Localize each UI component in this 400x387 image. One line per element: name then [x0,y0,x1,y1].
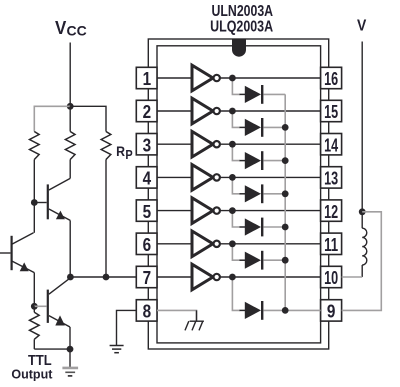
wire emitter node to ground [69,349,71,367]
svg-text:11: 11 [324,234,338,255]
node output 3 junction [229,141,236,148]
ground (TTL emitter) [62,368,78,376]
IC U1 outer outline [148,39,328,349]
node output 2 junction [229,108,236,115]
wire pin 8 to ground [117,310,137,345]
svg-text:P: P [125,147,133,162]
node output (Q1/Q3) [67,274,74,281]
node COM rail junction at D7 [282,307,289,314]
wire VCC supply [69,43,71,107]
pin 6 [136,233,157,255]
pin 1 [136,67,157,89]
wire pin 4 input to inverter A4 [157,176,192,178]
wire inverter A2 output to pin 15 [220,110,321,112]
wire inverter A1 output to pin 16 [220,77,321,79]
pin 9 [321,300,342,322]
label TTL Output [11,353,53,382]
node output 1 junction [229,75,236,82]
node Q3 base [31,303,38,310]
svg-text:1: 1 [143,68,152,89]
wire Q2 emitter to Q3 base node [33,273,35,307]
svg-text:15: 15 [324,101,338,122]
pin 12 [321,200,342,222]
node COM rail junction at D6 [282,257,289,264]
diode D3 [245,151,262,170]
wire flyback return to pin 9 [342,212,382,311]
inverter A1 [192,65,220,91]
diode D4 [245,184,262,203]
node output (Rp) [103,274,110,281]
node COM rail junction at D2 [282,124,289,131]
wire pin 1 input to inverter A1 [157,77,192,79]
node VCC junction [67,103,74,110]
wire output node 2 to diode D2 [232,111,240,127]
wire output node to pin 7 [70,276,136,278]
IC U1 pin-1 index notch [232,39,246,57]
wire V supply [361,42,363,212]
wire pin 5 input to inverter A5 [157,210,192,212]
node TTL emitter [67,346,74,353]
node A (Q1 base / Q2 collector) [31,199,38,206]
svg-text:V: V [55,18,66,38]
wire diode D1 cathode to COM rail [263,93,285,95]
node output 4 junction [229,174,236,181]
node output 6 junction [229,240,236,247]
svg-text:12: 12 [324,201,338,222]
inverter A7 [192,264,220,290]
node COM rail junction at D4 [282,190,289,197]
wire inverter A3 output to pin 14 [220,143,321,145]
svg-text:3: 3 [143,134,152,155]
diode D7 [245,301,262,320]
pin 8 [136,300,157,322]
transistor Q2 [0,233,34,273]
svg-text:CC: CC [67,22,87,38]
diode D2 [245,118,262,137]
pin 5 [136,200,157,222]
resistor R2 (middle bias) [65,132,75,160]
inductor L1 (relay coil) [362,212,367,277]
pin 11 [321,233,342,255]
wire output node 5 to diode D5 [232,211,240,227]
resistor R1 (left bias) [30,132,40,160]
wire inverter A4 output to pin 13 [220,176,321,178]
transistor Q3 [34,278,70,327]
node output 7 junction [229,274,236,281]
svg-text:6: 6 [143,234,152,255]
svg-text:9: 9 [327,301,336,322]
wire output node 6 to diode D6 [232,244,240,260]
wire pin 6 input to inverter A6 [157,243,192,245]
wire COM rail (diode common bus) [284,94,286,310]
pin 16 [321,67,342,89]
wire diode D5 cathode to COM rail [263,226,285,228]
node output 5 junction [229,207,236,214]
wire R2 to Q1 collector [69,160,71,179]
pin 14 [321,134,342,156]
svg-text:10: 10 [324,267,338,288]
resistor R3 (Q3 base-emitter) [30,306,40,349]
wire inverter A6 output to pin 11 [220,243,321,245]
transistor Q1 [34,178,70,220]
node COM rail junction at D3 [282,157,289,164]
inverter A6 [192,231,220,257]
inverter A4 [192,165,220,191]
svg-text:4: 4 [143,168,152,189]
substrate common symbol [185,310,204,330]
inverter A3 [192,131,220,157]
wire output node 7 to diode D7 [232,277,240,310]
pin 15 [321,100,342,122]
diode D5 [245,218,262,237]
svg-text:2: 2 [143,101,152,122]
label VCC [55,18,87,39]
wire diode D3 cathode to COM rail [263,160,285,162]
wire diode D7 cathode to COM rail [263,309,285,311]
wire output node 3 to diode D3 [232,144,240,160]
wire VCC to middle bias resistor [69,106,71,131]
wire pin 2 input to inverter A2 [157,110,192,112]
wire Q2 collector to node A [33,203,35,233]
wire output node 1 to diode D1 [232,78,240,94]
node COM rail junction at D5 [282,224,289,231]
wire inductor to pin 10 [342,276,363,278]
svg-text:13: 13 [324,168,338,189]
diode D6 [245,251,262,270]
pin 3 [136,134,157,156]
pin 4 [136,167,157,189]
svg-text:7: 7 [143,267,152,288]
wire COM rail to pin 9 [285,309,320,311]
wire Q1 emitter to output node [69,220,71,277]
svg-text:16: 16 [324,68,338,89]
wire pin 7 input to inverter A7 [157,276,192,278]
wire R3 to emitter node [34,348,70,350]
inverter A2 [192,98,220,124]
resistor Rp [101,132,111,160]
wire diode D6 cathode to COM rail [263,259,285,261]
svg-text:V: V [357,18,367,35]
inverter A5 [192,198,220,224]
wire pin 8 to substrate common [157,310,197,321]
wire VCC to left bias resistor [34,106,70,131]
svg-text:Output: Output [11,367,53,382]
wire R1 to node A [33,160,35,203]
wire output node 4 to diode D4 [232,177,240,193]
pin 7 [136,266,157,288]
wire diode D4 cathode to COM rail [263,193,285,195]
wire pin 3 input to inverter A3 [157,143,192,145]
wire VCC to resistor Rp [70,106,106,131]
svg-text:ULQ2003A: ULQ2003A [210,19,273,36]
IC U1 inner outline [157,46,321,343]
wire inverter A7 output to pin 10 [220,276,321,278]
ground (pin 8) [110,346,124,353]
label Rp [116,143,133,162]
wire inverter A5 output to pin 12 [220,210,321,212]
wire Rp to output node [105,160,107,278]
node V / inductor junction [359,208,366,215]
svg-text:14: 14 [324,134,338,155]
pin 2 [136,100,157,122]
diode D1 [245,85,262,104]
wire Q3 emitter down [69,327,71,349]
svg-text:ULN2003A: ULN2003A [212,3,274,20]
wire diode D2 cathode to COM rail [263,126,285,128]
svg-text:5: 5 [143,201,152,222]
pin 10 [321,266,342,288]
svg-text:8: 8 [143,301,152,322]
svg-text:R: R [116,143,125,159]
pin 13 [321,167,342,189]
